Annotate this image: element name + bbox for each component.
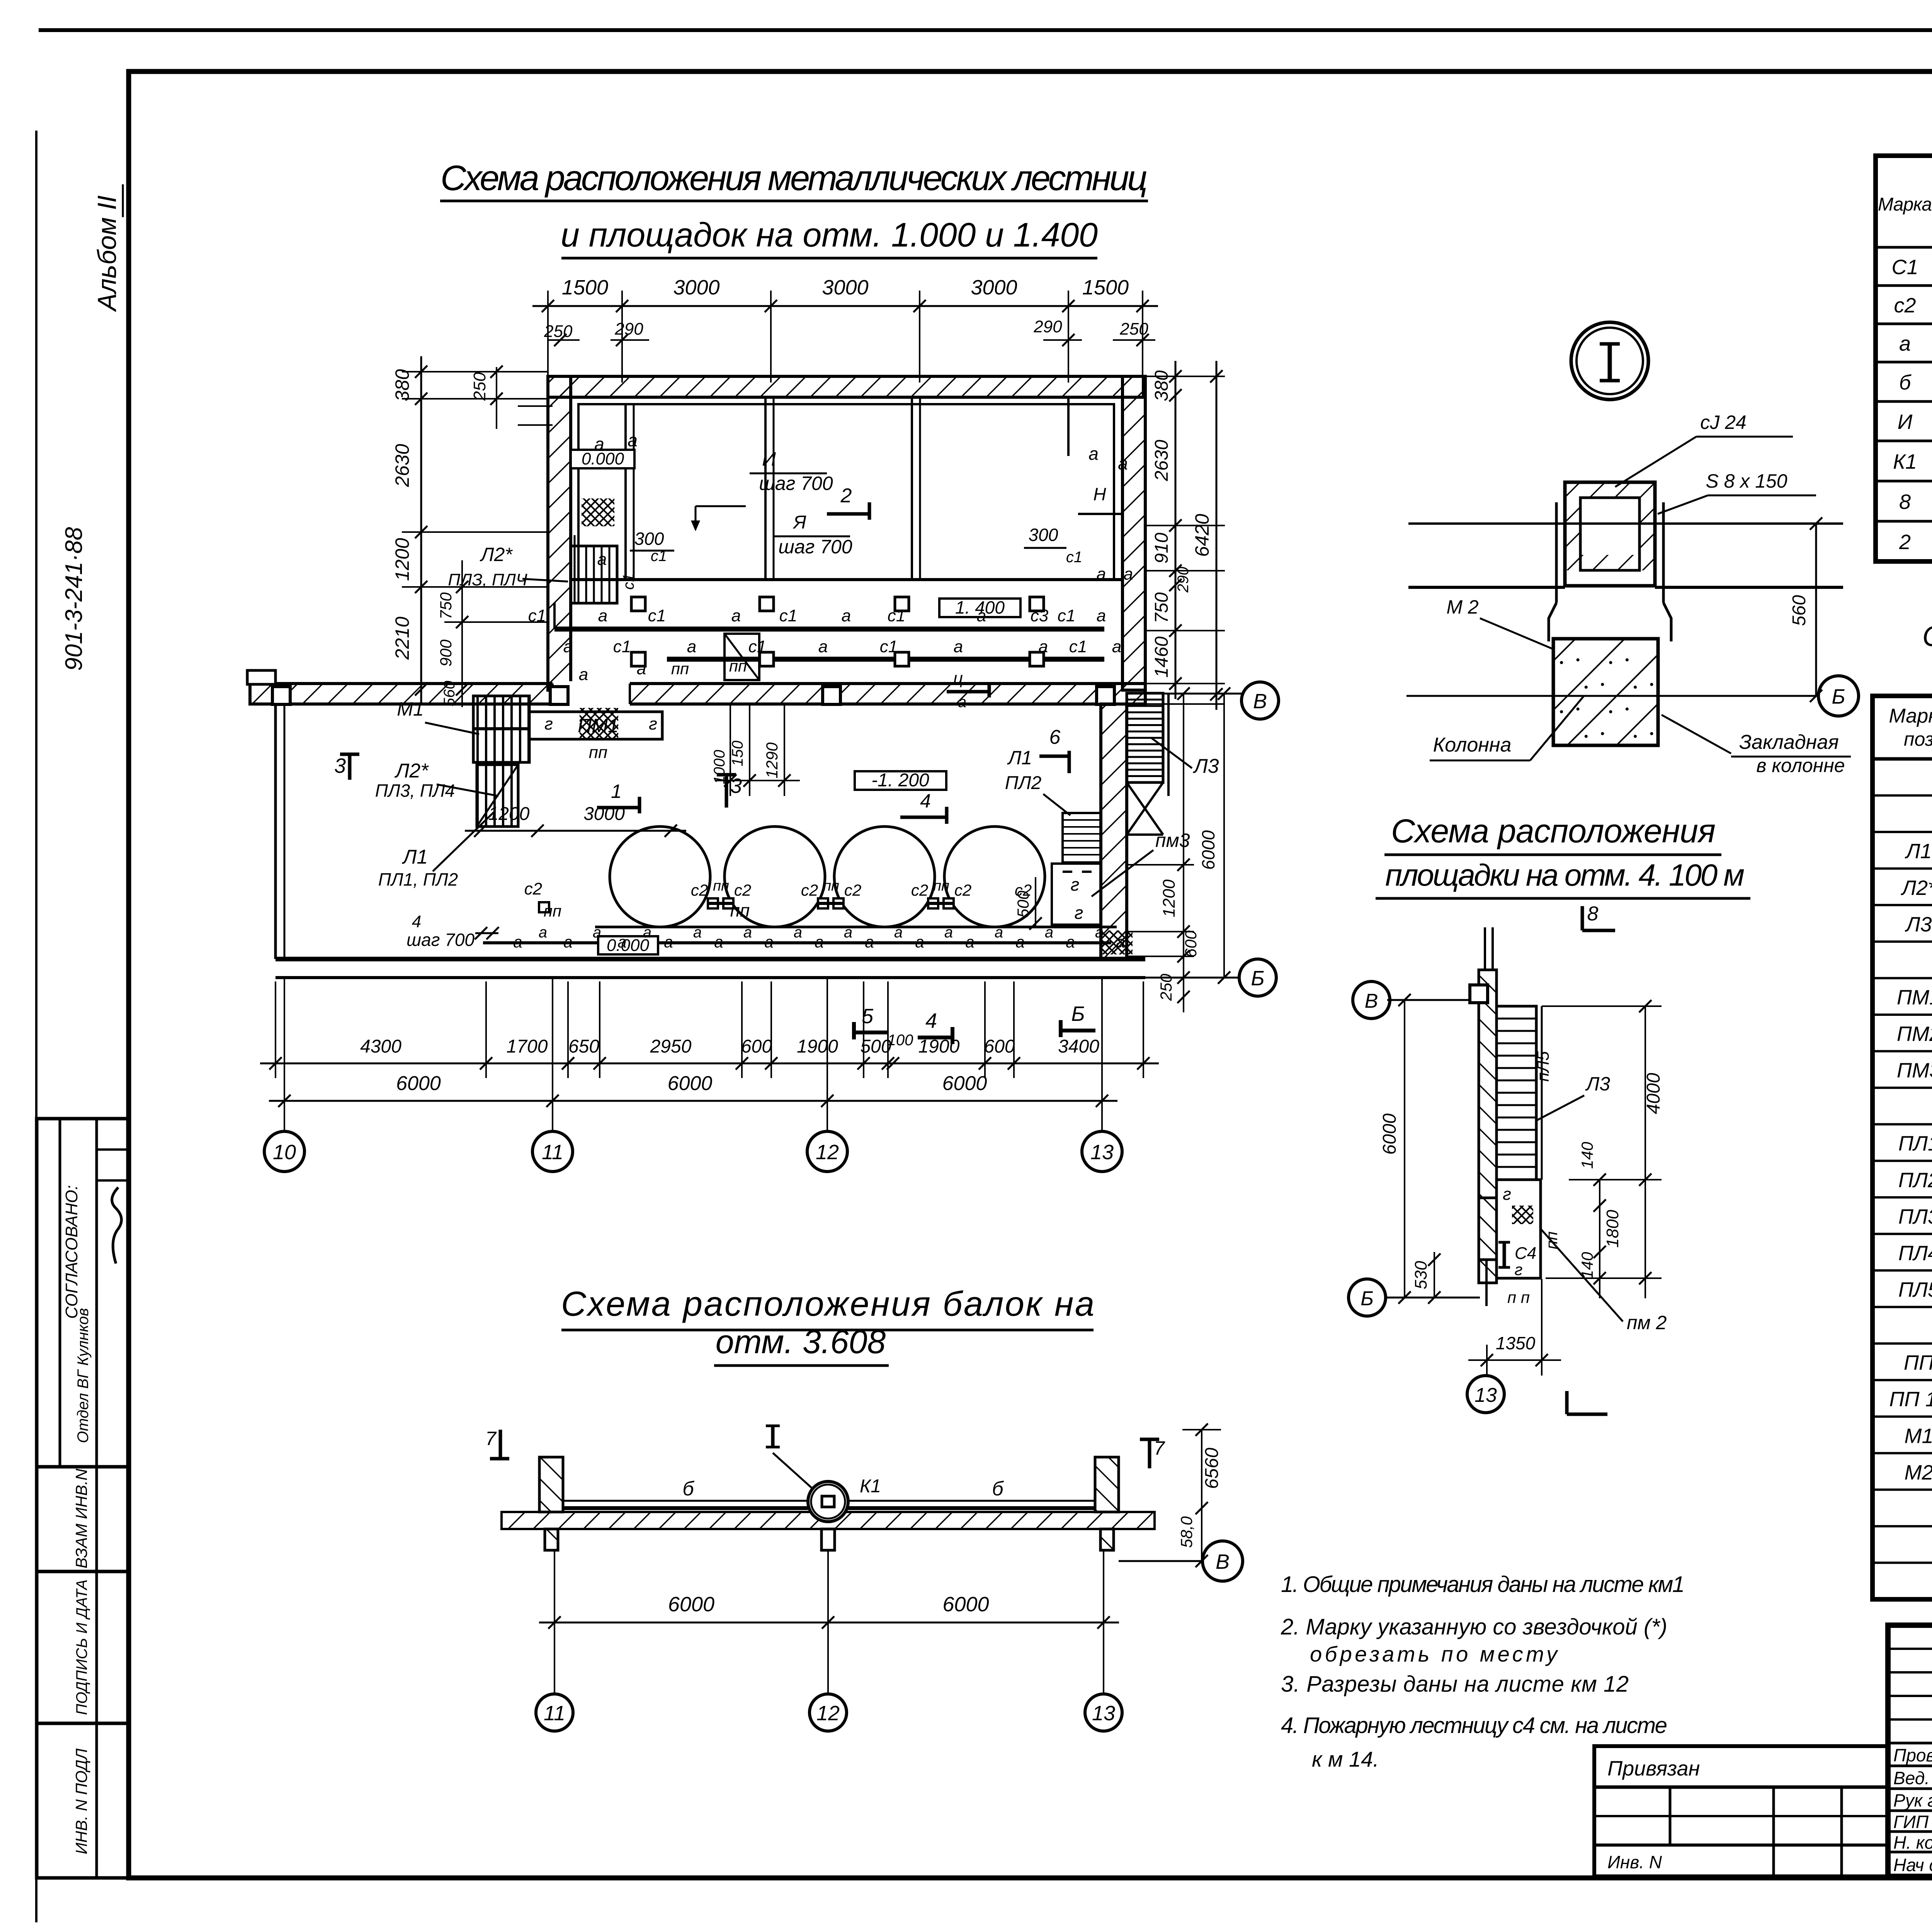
plan1 c1 column squares row1 (631, 597, 645, 611)
svg-text:Я: Я (793, 512, 806, 533)
plan1 B axis circle right (1145, 977, 1239, 979)
svg-text:140: 140 (1578, 1141, 1596, 1169)
svg-text:а: а (818, 637, 828, 656)
svg-text:560: 560 (441, 681, 458, 707)
svg-text:6000: 6000 (396, 1072, 441, 1095)
svg-text:И: И (762, 448, 776, 470)
svg-text:300: 300 (634, 529, 664, 549)
plan1 upper: stair opening shaft (724, 634, 759, 680)
svg-text:а: а (563, 933, 572, 951)
svg-text:с2: с2 (801, 881, 818, 899)
svg-text:М 2: М 2 (1446, 596, 1479, 618)
plan2 axis circles 11 12 13 (554, 1638, 555, 1694)
svg-text:1200: 1200 (488, 804, 530, 824)
svg-text:1200: 1200 (1160, 879, 1179, 917)
svg-text:В: В (1253, 690, 1267, 713)
svg-text:М1: М1 (397, 698, 423, 720)
svg-text:г: г (1071, 874, 1080, 895)
svg-text:10: 10 (273, 1141, 296, 1164)
svg-text:1500: 1500 (1082, 276, 1129, 299)
svg-text:пм3: пм3 (1155, 830, 1190, 851)
svg-text:с1: с1 (613, 637, 631, 656)
svg-text:а: а (617, 933, 626, 951)
svg-text:Л2*: Л2* (395, 760, 429, 782)
svg-text:3000: 3000 (673, 276, 719, 299)
svg-text:Провер.: Провер. (1893, 1745, 1932, 1765)
svg-text:1500: 1500 (562, 276, 608, 299)
svg-text:а: а (842, 606, 851, 625)
svg-text:а: а (1097, 565, 1106, 583)
svg-text:а: а (594, 434, 604, 454)
plan2 right column hatched (1095, 1457, 1119, 1512)
svg-text:Рук гр: Рук гр (1893, 1791, 1932, 1811)
svg-text:а: а (794, 924, 802, 941)
plan3 dim 1350 (1486, 1345, 1488, 1376)
plan2 detail I callout (771, 1426, 775, 1447)
svg-text:с1: с1 (779, 606, 797, 625)
svg-text:а: а (944, 924, 953, 941)
svg-text:Вед. инш: Вед. инш (1893, 1768, 1932, 1788)
plan3 section mark bottom (1565, 1391, 1569, 1414)
svg-text:пп: пп (713, 878, 729, 894)
svg-text:ВЗАМ ИНВ.N: ВЗАМ ИНВ.N (72, 1468, 90, 1568)
plan1 upper: top wall band hatched (548, 376, 1143, 397)
svg-text:ПЛ3, ПЛ4: ПЛ3, ПЛ4 (375, 781, 455, 801)
svg-text:290: 290 (1033, 317, 1062, 336)
svg-text:б: б (682, 1478, 694, 1500)
svg-text:11: 11 (542, 1141, 563, 1164)
svg-text:пЛ5: пЛ5 (1534, 1051, 1553, 1082)
plan1 lower: bottom double wall with B axis (276, 957, 1145, 961)
svg-text:а: а (664, 933, 673, 951)
plan1 lower: right wall hatched (1101, 704, 1127, 959)
plan1 V-wall left end cap (247, 670, 276, 684)
plan1 lower: left edge (274, 704, 277, 959)
svg-text:а: а (731, 606, 741, 625)
svg-text:290: 290 (614, 320, 643, 338)
svg-text:2950: 2950 (650, 1036, 692, 1057)
svg-text:250: 250 (470, 372, 489, 401)
svg-text:600: 600 (741, 1036, 772, 1057)
plan1 level mark -1.200 (855, 771, 946, 790)
svg-text:с2: с2 (734, 881, 751, 899)
plan1 upper: 1.400 platform beams heavy lines (554, 627, 1104, 632)
svg-text:Б: Б (1361, 1287, 1374, 1310)
plan1 stair L1 right (1063, 813, 1101, 862)
svg-text:901-3-241·88: 901-3-241·88 (61, 527, 87, 671)
svg-text:Б: Б (1251, 967, 1264, 990)
svg-text:а: а (687, 637, 696, 656)
plan3 axis circle 13 (1486, 1376, 1488, 1376)
plan3 B axis circle left (1387, 999, 1468, 1001)
svg-text:а: а (1097, 606, 1106, 625)
svg-text:500: 500 (1014, 890, 1032, 918)
svg-text:6000: 6000 (1379, 1113, 1400, 1155)
svg-text:Б: Б (1832, 685, 1845, 708)
svg-text:6420: 6420 (1191, 514, 1213, 557)
svg-text:с1: с1 (620, 573, 637, 590)
svg-text:а: а (643, 924, 651, 941)
svg-text:б: б (1899, 371, 1912, 394)
svg-text:600: 600 (1182, 930, 1200, 957)
svg-text:Колонна: Колонна (1433, 734, 1512, 756)
svg-text:а: а (539, 924, 547, 941)
svg-text:11: 11 (544, 1702, 565, 1725)
svg-text:4000: 4000 (1643, 1073, 1664, 1114)
svg-text:с1: с1 (888, 606, 905, 625)
svg-text:ПЛ1, ПЛ2: ПЛ1, ПЛ2 (378, 869, 458, 889)
svg-text:4: 4 (925, 1009, 937, 1032)
svg-text:М2: М2 (1904, 1461, 1932, 1484)
svg-text:8: 8 (1899, 490, 1911, 514)
svg-text:Л2*: Л2* (480, 544, 513, 565)
svg-text:обрезать по месту: обрезать по месту (1310, 1642, 1558, 1666)
detail I channel section square hatched walls (1565, 482, 1655, 586)
svg-text:ПМ1: ПМ1 (1897, 986, 1932, 1009)
svg-text:пп: пп (933, 878, 949, 894)
svg-text:а: а (593, 924, 601, 941)
svg-text:150: 150 (729, 741, 746, 767)
plan2 K1 column circle (808, 1481, 848, 1522)
svg-text:2. Марку указанную со: 2. Марку указанную со звездочкой (*) (1281, 1614, 1667, 1639)
svg-text:750: 750 (437, 592, 455, 619)
svg-text:1. Общие примечания дан: 1. Общие примечания даны на листе км1 (1281, 1572, 1685, 1597)
svg-text:ПЛ4: ПЛ4 (1898, 1242, 1932, 1265)
plan1 dims 1000 150 1290 (730, 704, 731, 796)
detail I long beam lines (1408, 522, 1843, 525)
plan1 stair arrow (695, 506, 697, 529)
svg-text:1000: 1000 (711, 750, 728, 784)
svg-text:с1: с1 (748, 637, 766, 656)
svg-text:а: а (598, 606, 607, 625)
svg-text:Л2*: Л2* (1901, 876, 1932, 900)
svg-text:Л1: Л1 (1007, 747, 1032, 769)
svg-text:а: а (1045, 924, 1053, 941)
plan2 beam line (563, 1506, 1095, 1510)
svg-text:530: 530 (1412, 1261, 1430, 1289)
svg-text:г: г (1503, 1185, 1511, 1204)
svg-text:К1: К1 (860, 1476, 881, 1497)
svg-text:а: а (693, 924, 702, 941)
svg-text:Схема расположения металличе: Схема расположения металлических лестниц (440, 158, 1148, 198)
plan3 platform below ladder (1497, 1180, 1541, 1278)
svg-text:а: а (1015, 933, 1024, 951)
svg-text:ПЛ2: ПЛ2 (1005, 773, 1041, 793)
plan1 level mark 1.400 (939, 599, 1020, 617)
svg-text:К1: К1 (1893, 450, 1917, 473)
svg-text:Л3: Л3 (1585, 1073, 1610, 1095)
plan1 bottom dim chain 6000s (284, 1078, 285, 1113)
svg-text:6000: 6000 (1198, 830, 1218, 870)
svg-text:1350: 1350 (1496, 1333, 1536, 1353)
plan2 dim 6000 6000 (554, 1550, 555, 1638)
svg-text:а: а (579, 665, 588, 684)
svg-text:шаг 700: шаг 700 (759, 473, 833, 494)
svg-text:Б: Б (1071, 1002, 1085, 1026)
svg-text:г: г (544, 714, 553, 733)
svg-text:а: а (597, 550, 607, 569)
plan1 right lower dims 6000/1200/600/250 (1183, 694, 1184, 1012)
svg-text:3400: 3400 (1058, 1036, 1099, 1057)
svg-text:2: 2 (1899, 531, 1911, 554)
svg-text:6000: 6000 (942, 1593, 989, 1616)
svg-text:пп: пп (544, 902, 561, 920)
plan1 column squares on V wall (272, 687, 290, 704)
plan1 line under tanks (595, 926, 1117, 929)
svg-text:1460: 1460 (1151, 636, 1172, 678)
svg-text:500: 500 (860, 1036, 891, 1057)
title block outer (1888, 1625, 1932, 1876)
svg-text:а: а (894, 924, 903, 941)
svg-text:ПЛ2: ПЛ2 (1898, 1168, 1932, 1192)
svg-text:Схема расположения: Схема расположения (1391, 813, 1716, 850)
plan1 top dimension chain 1500-3000-3000-3000-1500 (547, 291, 549, 383)
svg-text:а: а (965, 933, 974, 951)
svg-text:с1: с1 (648, 606, 666, 625)
svg-text:г: г (649, 714, 657, 733)
svg-text:4300: 4300 (360, 1036, 401, 1057)
svg-text:3: 3 (334, 754, 346, 777)
svg-text:пм 2: пм 2 (1627, 1312, 1667, 1333)
svg-text:а: а (1088, 444, 1099, 464)
svg-text:13: 13 (1092, 1702, 1115, 1725)
sidebar signature (112, 1187, 122, 1264)
svg-text:С4: С4 (1515, 1244, 1536, 1263)
svg-text:6560: 6560 (1202, 1447, 1222, 1489)
svg-text:с1: с1 (880, 637, 898, 656)
svg-text:а: а (954, 637, 963, 656)
svg-text:а: а (1899, 332, 1911, 355)
svg-text:Закладная: Закладная (1739, 731, 1839, 753)
svg-text:пп: пп (589, 743, 607, 762)
svg-text:1290: 1290 (763, 742, 781, 779)
svg-text:поз: поз (1904, 728, 1932, 750)
svg-text:13: 13 (1090, 1141, 1114, 1164)
svg-text:с1: с1 (1066, 549, 1082, 566)
svg-text:с3: с3 (1031, 606, 1049, 625)
svg-text:шаг 700: шаг 700 (406, 930, 474, 950)
svg-text:2630: 2630 (391, 444, 413, 487)
left margin thin line (35, 131, 37, 1922)
svg-text:ПМ2: ПМ2 (1897, 1022, 1932, 1046)
svg-text:Нач отд: Нач отд (1893, 1855, 1932, 1875)
svg-text:с2: с2 (524, 879, 542, 898)
plan1 upper: right wall (1122, 376, 1145, 690)
plan3 right dims 4000 140 1800 140 (1645, 1006, 1646, 1298)
svg-text:а: а (1112, 637, 1121, 656)
svg-text:ИНВ. N ПОДЛ: ИНВ. N ПОДЛ (72, 1748, 90, 1854)
svg-text:560: 560 (1789, 595, 1810, 626)
svg-text:с1: с1 (651, 548, 667, 565)
svg-text:650: 650 (568, 1036, 599, 1057)
plan1 stair M1 striped (473, 696, 529, 762)
svg-text:а: а (995, 924, 1003, 941)
svg-text:1200: 1200 (391, 538, 413, 581)
svg-text:13: 13 (1475, 1384, 1497, 1406)
plan1 upper: left wall (548, 376, 571, 690)
plan1 bottom beam lines (483, 941, 1111, 944)
plan1 stair L2 with steps (571, 546, 617, 603)
svg-text:и площадок на отм. 1.000: и площадок на отм. 1.000 и 1.400 (561, 216, 1098, 254)
svg-text:шаг 700: шаг 700 (778, 536, 852, 558)
svg-text:а: а (764, 933, 773, 951)
svg-text:а: а (563, 637, 573, 656)
svg-text:с2: с2 (844, 881, 861, 899)
svg-text:пп: пп (671, 660, 689, 678)
svg-text:отм. 3.608: отм. 3.608 (716, 1323, 886, 1361)
svg-text:6000: 6000 (668, 1593, 714, 1616)
svg-text:с2: с2 (691, 881, 708, 899)
svg-text:Л3: Л3 (1193, 755, 1219, 777)
plan2 right dims 6560 580 (1201, 1430, 1202, 1561)
svg-text:1900: 1900 (797, 1036, 838, 1057)
svg-text:Н. контр: Н. контр (1893, 1833, 1932, 1853)
plan1 c2 squares and labels between tanks (708, 898, 718, 908)
detail I callout circle (1571, 322, 1648, 400)
svg-text:г: г (1515, 1260, 1523, 1279)
svg-text:3000: 3000 (583, 804, 625, 824)
svg-text:а: а (844, 924, 852, 941)
svg-text:пп: пп (730, 900, 750, 920)
svg-text:3000: 3000 (971, 276, 1017, 299)
svg-text:а: а (743, 924, 752, 941)
svg-text:ПМ1: ПМ1 (578, 715, 619, 736)
svg-text:б: б (992, 1478, 1004, 1500)
svg-text:г: г (1075, 903, 1083, 923)
svg-text:а: а (1116, 933, 1125, 951)
svg-text:а: а (714, 933, 723, 951)
svg-text:с1: с1 (1069, 637, 1087, 656)
plan1 mesh square right (1100, 930, 1133, 954)
svg-text:Марка: Марка (1889, 705, 1932, 727)
svg-text:2630: 2630 (1151, 440, 1172, 481)
plan1 stair L2 lower striped (477, 765, 518, 827)
svg-text:12: 12 (816, 1141, 839, 1164)
svg-text:М1: М1 (1904, 1424, 1932, 1447)
svg-text:а: а (1039, 637, 1048, 656)
svg-text:910: 910 (1151, 532, 1172, 563)
table2 grid (1872, 696, 1932, 1599)
plan3 dim 530 (1434, 1252, 1435, 1298)
svg-text:Л1: Л1 (402, 846, 428, 868)
plan1 mesh hatch near stair (582, 498, 614, 526)
svg-text:с2: с2 (954, 881, 971, 899)
plan2 left column hatched (539, 1457, 563, 1512)
plan1 left vertical dim chains (402, 398, 548, 400)
svg-text:а: а (865, 933, 874, 951)
svg-text:с2: с2 (1894, 294, 1916, 317)
svg-text:3000: 3000 (822, 276, 868, 299)
svg-text:380: 380 (1151, 370, 1172, 401)
plan1 upper: inner room rectangle (578, 404, 1114, 580)
svg-text:7: 7 (485, 1428, 497, 1449)
svg-text:600: 600 (984, 1036, 1015, 1057)
svg-text:а: а (1118, 453, 1128, 473)
plan2 V axis circle right (1119, 1560, 1201, 1562)
svg-text:Л3: Л3 (1905, 913, 1932, 936)
svg-text:S 8 х 150: S 8 х 150 (1706, 470, 1787, 492)
svg-text:ПЛ3: ПЛ3 (1898, 1205, 1932, 1228)
plan1 four tank circles (610, 827, 710, 927)
svg-text:ПМ3: ПМ3 (1897, 1059, 1932, 1082)
svg-text:4: 4 (920, 790, 931, 812)
svg-text:1700: 1700 (507, 1036, 548, 1057)
svg-text:6: 6 (1049, 726, 1061, 748)
svg-text:Инв. N: Инв. N (1607, 1852, 1662, 1872)
svg-text:Л1: Л1 (1905, 840, 1932, 863)
svg-text:а: а (977, 606, 986, 625)
svg-text:В: В (1365, 990, 1378, 1012)
svg-text:900: 900 (437, 639, 455, 667)
svg-text:-1. 200: -1. 200 (871, 770, 929, 791)
detail I side plates (1555, 502, 1558, 603)
plan1 platform PM1 (529, 712, 662, 739)
svg-text:п п: п п (1507, 1288, 1530, 1306)
plan1 top sub dims 250/290/290/250 (548, 339, 580, 341)
plan3 wall hatched vertical (1479, 970, 1497, 1283)
svg-text:сЈ 24: сЈ 24 (1700, 412, 1747, 433)
svg-text:12: 12 (816, 1702, 840, 1725)
svg-text:ПП 10: ПП 10 (1889, 1388, 1932, 1411)
svg-text:а: а (815, 933, 823, 951)
svg-text:6000: 6000 (668, 1072, 713, 1095)
svg-text:100: 100 (888, 1032, 913, 1049)
svg-text:а: а (637, 659, 646, 678)
svg-text:а: а (628, 430, 638, 450)
plan3 dim 6000 left (1404, 1000, 1405, 1298)
plan2 slab hatched band (502, 1512, 1155, 1529)
svg-text:4. Пожарную лестницу с4: 4. Пожарную лестницу с4 см. на листе (1281, 1713, 1667, 1738)
svg-text:58,0: 58,0 (1177, 1516, 1196, 1548)
svg-text:ПП: ПП (1904, 1351, 1932, 1374)
plan1 c1 column squares row2 (631, 652, 645, 666)
svg-text:Схема расположения балок на: Схема расположения балок на (561, 1285, 1094, 1323)
plan1 level mark 0.000 (571, 450, 634, 468)
svg-text:ПОДПИСЬ И ДАТА: ПОДПИСЬ И ДАТА (73, 1580, 90, 1715)
svg-text:площадки на отм. 4. 100 м: площадки на отм. 4. 100 м (1385, 858, 1745, 892)
svg-text:Привязан: Привязан (1607, 1757, 1700, 1780)
plan1 500 dim (1035, 877, 1036, 927)
svg-text:290: 290 (1175, 567, 1192, 593)
svg-text:Марка: Марка (1878, 194, 1932, 215)
detail I column concrete hatched (1553, 639, 1658, 745)
sidebar approval table (37, 1119, 129, 1878)
svg-text:с2: с2 (911, 881, 928, 899)
plan1 V axis line and circle (1145, 693, 1242, 695)
svg-text:СОГЛАСОВАНО:: СОГЛАСОВАНО: (62, 1185, 81, 1319)
svg-text:750: 750 (1151, 592, 1172, 623)
plan2 column stubs below slab (545, 1529, 558, 1550)
plan1 dims inside lower plan 1200 3000 (465, 830, 686, 832)
plan1 axis circles 10-13 (284, 978, 285, 1131)
plan1 upper: bay partition walls (624, 404, 627, 580)
privyazan table (1594, 1746, 1888, 1876)
svg-text:Н: Н (1093, 484, 1106, 504)
svg-text:пп: пп (729, 657, 747, 675)
svg-text:380: 380 (391, 369, 413, 401)
detail I transition to column (1549, 603, 1556, 641)
plan1 V-axis wall band (250, 684, 1145, 704)
svg-text:1: 1 (611, 781, 622, 802)
svg-text:пп: пп (823, 878, 839, 894)
svg-text:250: 250 (1119, 320, 1148, 338)
plan1 upper: beam line under room (571, 578, 1122, 581)
svg-text:в колонне: в колонне (1756, 755, 1845, 776)
svg-text:1800: 1800 (1603, 1210, 1622, 1248)
svg-text:2210: 2210 (391, 617, 413, 660)
svg-text:1900: 1900 (918, 1036, 960, 1057)
svg-text:300: 300 (1029, 525, 1058, 545)
